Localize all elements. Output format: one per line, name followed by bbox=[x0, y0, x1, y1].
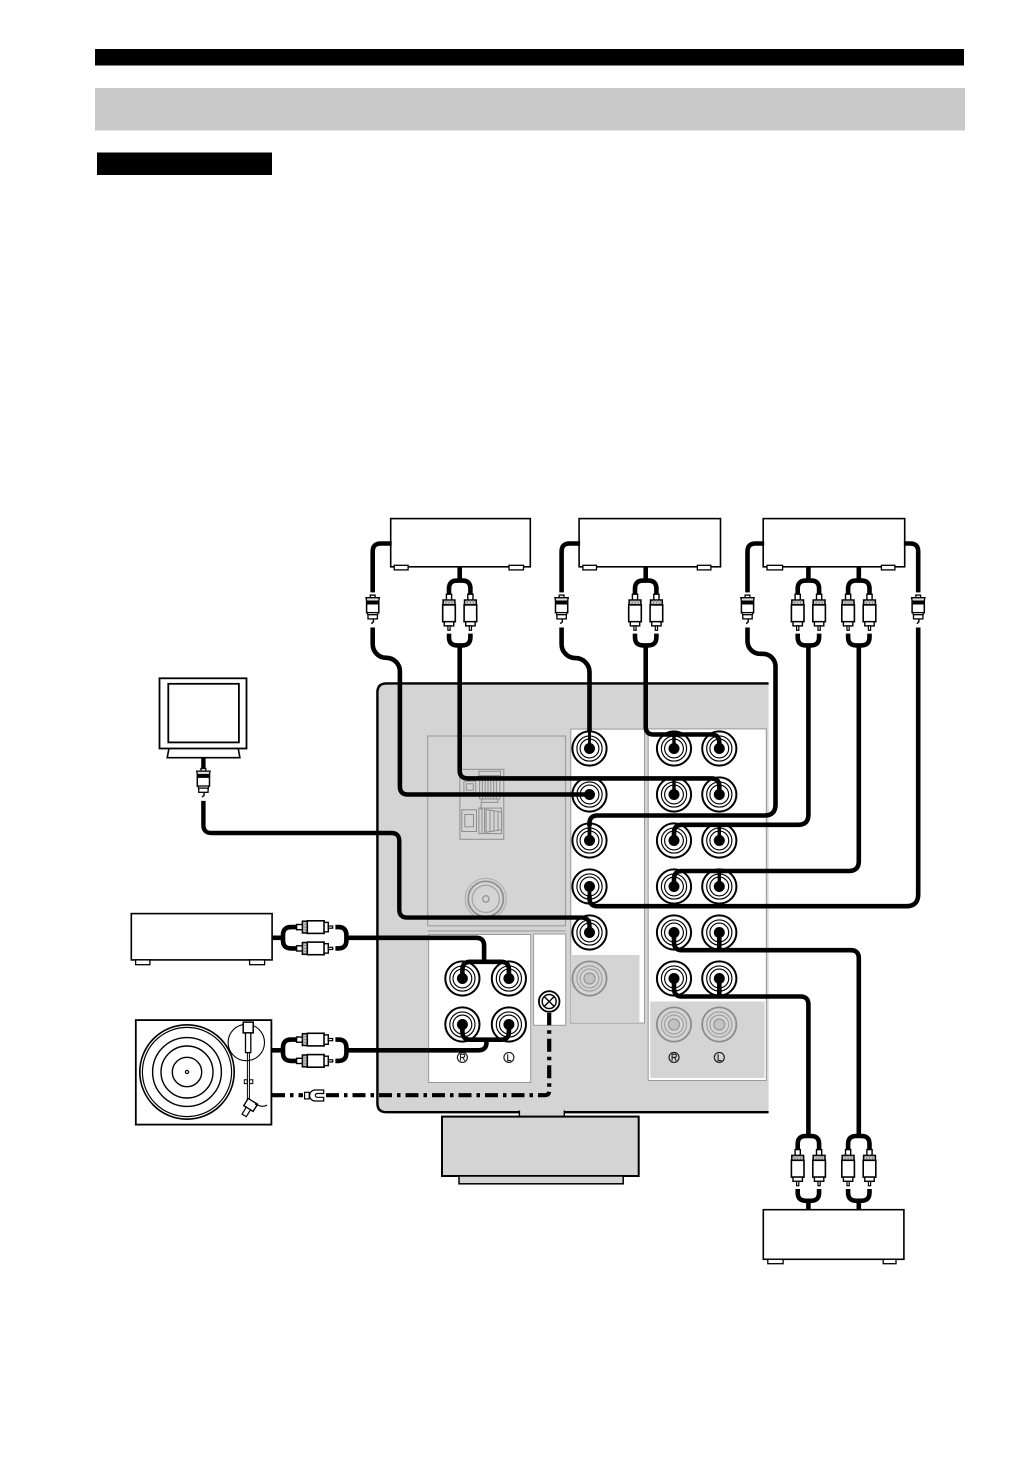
bottom device RCA pairs bbox=[791, 1136, 875, 1201]
wire box2 pair lower loop bbox=[635, 634, 656, 646]
antenna connector bbox=[465, 878, 506, 919]
RCA plug turntable top bbox=[297, 1033, 333, 1046]
RCA plug bottom pair1 left bbox=[791, 1150, 804, 1186]
ground wire from turntable bbox=[272, 1013, 549, 1095]
ground spade lug crimp bbox=[305, 1092, 310, 1099]
jack right col row6 L bbox=[657, 961, 691, 995]
wire box3 optical-right to center row4 jack bbox=[590, 628, 919, 907]
right jack strip bbox=[648, 729, 766, 1081]
jack center row4 bbox=[572, 869, 606, 903]
pedestal below panel bbox=[442, 1109, 639, 1184]
source box 2 (top middle device) bbox=[579, 519, 720, 570]
jack phono block bottom L bbox=[492, 1007, 526, 1041]
gray section bar bbox=[95, 88, 965, 131]
wire box1 optical lead to center row2 jack bbox=[373, 628, 590, 795]
wire box3 pair2 arch bbox=[848, 581, 869, 595]
jack center row3 bbox=[572, 823, 606, 857]
jack phono block top L bbox=[492, 961, 526, 995]
RCA plug box1 left bbox=[443, 594, 456, 630]
TV plug bbox=[197, 769, 210, 798]
wire bottom pair1 cable into device bbox=[806, 1199, 811, 1211]
wire amp pair right loop bbox=[335, 927, 346, 948]
wire box1 audio pair to right col row2 jacks bbox=[460, 644, 720, 795]
ground screw terminal bbox=[539, 991, 560, 1012]
wire box1 pair lower loop bbox=[449, 634, 470, 646]
jack phono block top R bbox=[445, 961, 479, 995]
jack center row1 bbox=[572, 731, 606, 765]
jack right col row2 R bbox=[702, 777, 736, 811]
wire box2 optical lead upper bbox=[562, 544, 581, 593]
wire box3 optical-left to center row3 jack bbox=[590, 628, 776, 827]
wire turntable pair to phono-block bottom jacks bbox=[346, 1041, 487, 1050]
top black title bar bbox=[95, 49, 964, 66]
wire stub row4 R jack bbox=[718, 871, 721, 887]
wire box3 pair2 lower loop bbox=[848, 634, 869, 646]
wire stub row1 L jack bbox=[672, 735, 675, 749]
jack right col row6 R bbox=[702, 961, 736, 995]
wire bar over phono-block top jacks bbox=[462, 962, 509, 979]
wire box3 audio1 pair to right col row3 jacks bbox=[674, 644, 808, 841]
RCA plug box2 right bbox=[650, 594, 663, 630]
TV / monitor bbox=[160, 678, 247, 757]
wire amp cable from box bbox=[273, 935, 284, 940]
speaker terminal drawing bbox=[460, 769, 504, 839]
wire box3 pair1 arch bbox=[798, 581, 819, 595]
wire stub into center row1 jack bbox=[588, 729, 591, 749]
wire right col row5 jacks to bottom device pair2 bbox=[674, 933, 859, 1137]
wire stub row6 R jack bbox=[717, 979, 722, 997]
wire amp pair left loop bbox=[283, 927, 297, 948]
wire stub into center row3 jack bbox=[588, 824, 592, 841]
jack right col row4 R bbox=[702, 869, 736, 903]
jack right col row3 L bbox=[657, 823, 691, 857]
label L right column bbox=[714, 1052, 724, 1062]
jack right col row5 L bbox=[657, 915, 691, 949]
source box 1 (top left device) bbox=[391, 519, 531, 570]
wire turntable pair left loop bbox=[283, 1040, 297, 1061]
jack right col row3 R bbox=[702, 823, 736, 857]
wire right col row6 jacks to bottom device pair1 bbox=[674, 979, 808, 1137]
RCA plug box3 pair1 right bbox=[813, 594, 826, 630]
jack right col row2 L bbox=[657, 777, 691, 811]
wire box2 pair arch bbox=[635, 581, 656, 595]
jack right col row5 R bbox=[702, 915, 736, 949]
wire box3 optical-right lead upper bbox=[904, 544, 918, 593]
wire TV video cable to center row5 jack bbox=[203, 801, 589, 933]
RCA plug amp top bbox=[297, 921, 333, 934]
small black label box bbox=[97, 153, 272, 176]
wire box2 audio cable from box bbox=[643, 566, 648, 582]
wire box3 audio2 pair to right col row4 jacks bbox=[674, 644, 859, 887]
wire box3 optical-left lead upper bbox=[748, 544, 765, 593]
wire bottom pair1 arch bbox=[798, 1136, 819, 1150]
wire bottom pair1 lower loop bbox=[798, 1189, 819, 1201]
wire box3 audio1 cable from box bbox=[806, 566, 811, 582]
box3 optical-left plug bbox=[741, 595, 754, 624]
wire TV video cable upper bbox=[203, 758, 589, 933]
bottom right device box bbox=[763, 1210, 904, 1264]
wire box3 audio2 cable from box bbox=[856, 566, 861, 582]
ground spade lug fork bbox=[310, 1090, 324, 1101]
box1 optical plug bbox=[366, 595, 379, 624]
source box 3 (top right device) bbox=[763, 519, 905, 570]
wire bar under phono-block bottom jacks bbox=[462, 1025, 509, 1040]
wire turntable pair right loop bbox=[335, 1040, 346, 1061]
RCA plug bottom pair2 right bbox=[863, 1150, 876, 1186]
RCA plug box3 pair1 left bbox=[791, 594, 804, 630]
center jack strip bbox=[571, 729, 645, 1023]
lower-left 2x2 jack box bbox=[429, 935, 531, 1083]
RCA plug turntable bottom bbox=[297, 1055, 333, 1068]
wire stub row3 R jack bbox=[718, 825, 721, 841]
RCA plug box3 pair2 left bbox=[842, 594, 855, 630]
wire box2 optical lead to center row1 jack bbox=[562, 628, 590, 732]
jack center row5 bbox=[572, 915, 606, 949]
RCA plug box3 pair2 right bbox=[863, 594, 876, 630]
label R right column bbox=[669, 1052, 679, 1062]
wire box1 optical lead upper bbox=[373, 544, 392, 593]
jack right col row4 L bbox=[657, 869, 691, 903]
amplifier box (left middle) bbox=[131, 914, 272, 965]
unused gray jack right L bbox=[702, 1007, 736, 1041]
ground wire to screw terminal bbox=[326, 1013, 549, 1095]
wire bottom pair2 arch bbox=[848, 1136, 869, 1150]
wire box2 audio pair to right col row1 jacks bbox=[646, 644, 720, 749]
jack phono block bottom R bbox=[445, 1007, 479, 1041]
screw strip bbox=[534, 934, 566, 1025]
jack center row2 bbox=[572, 777, 606, 811]
wire stub row2 L jack bbox=[674, 735, 719, 887]
receiver rear panel bbox=[377, 683, 768, 1112]
RCA plug bottom pair2 left bbox=[842, 1150, 855, 1186]
RCA plug bottom pair1 right bbox=[813, 1150, 826, 1186]
turntable bbox=[136, 1020, 272, 1125]
wire stub row5 R jack bbox=[717, 933, 722, 951]
wire box1 audio cable from box bbox=[457, 566, 462, 582]
wire box1 pair arch bbox=[449, 581, 470, 595]
box2 optical plug bbox=[555, 595, 568, 624]
unused gray jack right R bbox=[657, 1007, 691, 1041]
jack right col row1 L bbox=[657, 731, 691, 765]
label R phono block bbox=[457, 1052, 467, 1062]
wire box3 pair1 lower loop bbox=[798, 634, 819, 646]
jack right col row1 R bbox=[702, 731, 736, 765]
unused gray jack center column bbox=[572, 961, 606, 995]
wire amp pair to phono-block top jacks bbox=[346, 938, 484, 963]
inner speaker-terminal box bbox=[428, 736, 566, 931]
RCA plug box1 right bbox=[464, 594, 477, 630]
wire bottom pair2 cable into device bbox=[856, 1199, 861, 1211]
RCA plug box2 left bbox=[629, 594, 642, 630]
wire stub into center row4 jack bbox=[588, 887, 592, 899]
RCA plug amp bottom bbox=[297, 942, 333, 955]
label L phono block bbox=[504, 1052, 514, 1062]
wire bottom pair2 lower loop bbox=[848, 1189, 869, 1201]
box3 optical-right plug bbox=[912, 595, 925, 624]
wire turntable cable from box bbox=[272, 1048, 284, 1053]
